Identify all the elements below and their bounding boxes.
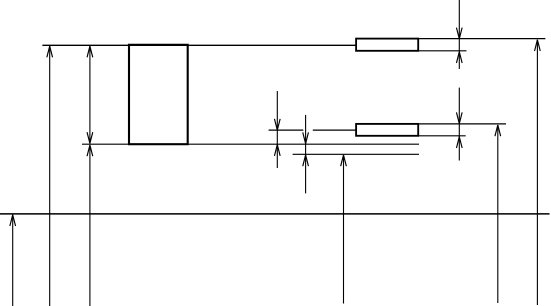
dimension arrow B (x=49.7, up to top line) xyxy=(47,46,53,306)
wire: top reference line xyxy=(42,44,356,46)
wire: upper plate top edge extension xyxy=(418,38,545,40)
wire: third reference line xyxy=(293,153,419,155)
block: large rectangle body xyxy=(129,45,188,144)
dimension C (x=89.9, between top line and second line) xyxy=(87,46,93,143)
wire: lower plate centre lead line (left segment) xyxy=(269,129,304,131)
dimension F (x=305.6, second line to third line) xyxy=(303,115,309,193)
wire: lower plate top edge extension xyxy=(418,123,506,125)
dimension H (x=459.3, upper plate thickness, from top edge) xyxy=(456,0,462,69)
dimension arrow J (x=497.8, up to lower plate top edge) xyxy=(495,125,501,303)
dimension I (x=459.3, lower plate thickness) xyxy=(456,88,462,161)
wire: lower plate centre lead line (right segment) xyxy=(313,129,356,131)
wire: second reference line (long, under rectangle) xyxy=(82,143,419,145)
block: upper thin plate body xyxy=(356,39,418,51)
wire: lower plate bottom edge extension xyxy=(418,135,466,137)
dimension arrow D (x=89.9, up to second line from below) xyxy=(87,145,93,306)
block: lower thin plate body xyxy=(356,124,418,136)
wire: bottom baseline (full width) xyxy=(0,213,550,215)
dimension arrow K (x=537.4, up to upper plate top edge) xyxy=(535,40,541,305)
wire: upper plate bottom edge extension xyxy=(418,50,466,52)
dimension E (x=277.3, lead line to second line) xyxy=(274,91,280,168)
dimension arrow G (x=343.5, up to third line) xyxy=(341,155,347,304)
dimension arrow A (x=12.7, up to baseline) xyxy=(10,215,16,306)
